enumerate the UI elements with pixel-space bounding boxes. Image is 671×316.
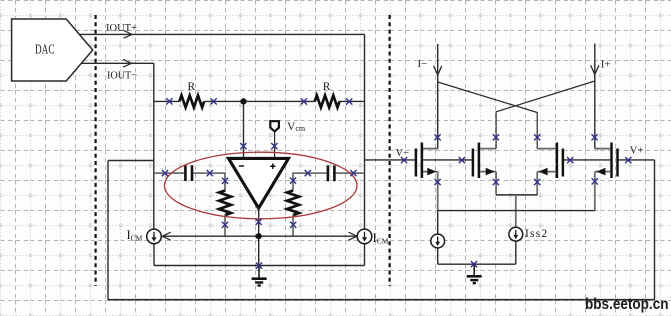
- svg-text:bbs.eetop.cn: bbs.eetop.cn: [585, 296, 669, 313]
- red highlight ellipse: [164, 152, 357, 219]
- pin connection X marks (op-amp output and ground taps): [256, 219, 477, 269]
- junction dot on output drop: [256, 233, 262, 239]
- wire mid horizontal rail: [438, 210, 595, 212]
- pin connection X marks (resistor row): [166, 98, 352, 104]
- current source Icm right: [357, 229, 372, 244]
- wire outer bottom rail: [108, 299, 655, 301]
- svg-text:I−: I−: [418, 58, 428, 70]
- wire tail node: [496, 194, 537, 196]
- wire cap row right: [336, 172, 365, 174]
- ground (left circuit): [252, 266, 267, 286]
- arrow on I- feed: [434, 66, 442, 75]
- arrow on IOUT- wire: [123, 59, 132, 67]
- junction dot node A: [240, 98, 246, 104]
- svg-text:V+: V+: [630, 146, 644, 157]
- current source Icm left: [147, 229, 162, 244]
- wire V+ gate lead: [619, 159, 655, 161]
- wire I+ feed vertical: [594, 44, 596, 149]
- pin connection X marks (transistor drains): [435, 134, 598, 140]
- wire outer left vertical: [107, 161, 109, 300]
- svg-text:DAC: DAC: [35, 43, 55, 58]
- svg-text:Vcm: Vcm: [287, 121, 306, 133]
- capacitor C1: [185, 165, 192, 181]
- wire Q3 source drop: [536, 172, 538, 195]
- wire left feedback resistor bottom drop: [224, 215, 226, 236]
- arrow on IOUT+ wire: [124, 30, 133, 38]
- pin connection X marks (transistor sources): [435, 178, 598, 185]
- wire cap row left: [154, 172, 184, 174]
- wire inner bottom rail: [154, 265, 365, 267]
- wire V- gate lead: [365, 159, 415, 161]
- current source Iss2: [509, 227, 523, 241]
- wire IOUT+: [79, 33, 365, 35]
- resistor R2: [315, 95, 340, 107]
- wire jog to outer rail: [108, 160, 154, 162]
- wire IOUT-: [82, 62, 154, 64]
- wire Q4 source drop: [594, 172, 596, 211]
- arrow on I+ feed: [591, 65, 599, 74]
- wire: left vertical node (IOUT- net): [153, 63, 155, 229]
- wire left tail CS drop: [437, 211, 439, 265]
- resistor R1: [179, 95, 204, 107]
- capacitor C2: [328, 165, 335, 181]
- transistor Q1: [416, 143, 438, 179]
- dashed partition line left: [94, 15, 96, 286]
- svg-text:R: R: [188, 81, 196, 93]
- wire cap C2 to resistor drop: [293, 173, 327, 190]
- wire Q1 bulk to Q2 gate: [423, 159, 472, 161]
- wire op-amp output drop: [258, 208, 260, 265]
- wire resistor row middle: [204, 100, 315, 102]
- wire resistor row left lead: [154, 100, 180, 102]
- wire resistor row right lead: [339, 100, 364, 102]
- wire bottom rail (right circuit): [438, 263, 516, 265]
- wire: Vcm drop to op-amp non-inverting input: [274, 131, 276, 158]
- wire tail drop to Iss2: [515, 195, 517, 227]
- pin connection X marks (op-amp inputs): [240, 143, 277, 149]
- wire: right vertical node (IOUT+ net): [364, 34, 366, 229]
- transistor Q4: [595, 143, 618, 179]
- wire cross-couple diagonal from I+ to Q2 drain: [496, 81, 595, 149]
- wire common-mode current row: [162, 235, 358, 237]
- wire right CS bottom drop: [364, 244, 366, 266]
- transistor Q3: [537, 143, 563, 179]
- wire right feedback resistor bottom drop: [292, 215, 294, 236]
- wire I- feed vertical: [437, 44, 439, 149]
- wire Iss2 bottom drop: [515, 241, 517, 264]
- pin connection X marks (cap rows and feedback resistors): [162, 170, 357, 228]
- op-amp U1: [229, 158, 289, 208]
- wire cross-couple diagonal from I- to Q3 drain: [438, 82, 538, 149]
- dashed partition line right: [389, 15, 391, 286]
- wire Q2 source drop: [495, 172, 497, 195]
- svg-text:IOUT+: IOUT+: [106, 22, 137, 34]
- wire left CS bottom drop: [153, 244, 155, 266]
- svg-text:IOUT−: IOUT−: [107, 70, 137, 82]
- svg-text:Iss2: Iss2: [525, 228, 548, 240]
- arrow right on current row: [349, 232, 358, 240]
- transistor Q2: [473, 143, 496, 179]
- resistor (right feedback): [287, 191, 299, 216]
- resistor (left feedback): [219, 191, 231, 216]
- current source (tail left): [431, 234, 445, 248]
- svg-text:R: R: [323, 81, 331, 93]
- wire outer right vertical (V+ net): [654, 160, 656, 300]
- svg-text:I+: I+: [601, 59, 611, 71]
- arrow left on current row: [162, 232, 171, 240]
- wire: drop from junction to op-amp inverting input: [243, 101, 245, 158]
- port Vcm: [270, 121, 306, 133]
- pin connection X marks (gate row): [401, 157, 631, 163]
- ground (right circuit): [467, 264, 482, 283]
- DAC block: [12, 19, 93, 81]
- wire Q1 source drop: [437, 172, 439, 211]
- wire Q3 gate to Q4 bulk: [564, 159, 610, 161]
- wire cap C1 to resistor drop: [193, 173, 225, 190]
